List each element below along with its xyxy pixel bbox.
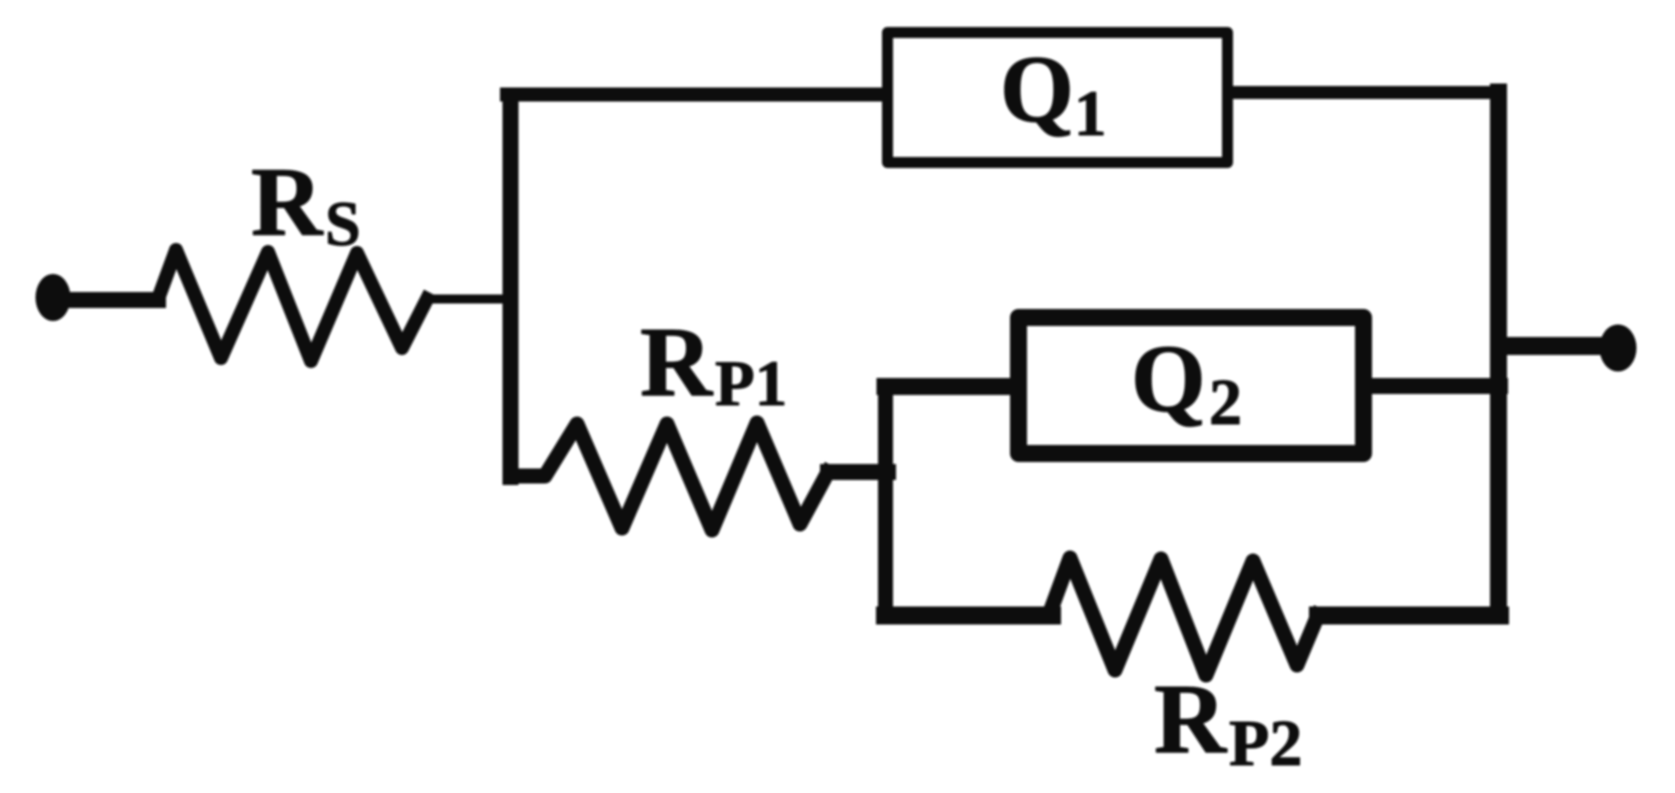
wire: node A to Q1: [507, 88, 886, 102]
svg-text:S: S: [325, 188, 361, 259]
terminal dot (left input): [36, 274, 71, 321]
svg-text:P2: P2: [1229, 707, 1302, 780]
wire: right rail vertical: [1490, 92, 1507, 616]
wire: left terminal to RS: [58, 292, 158, 308]
wire: Q1 to right rail: [1230, 86, 1500, 99]
wire: Q2 to right rail: [1367, 378, 1500, 394]
resistor RP1: [516, 423, 828, 530]
svg-text:P1: P1: [715, 348, 787, 420]
svg-text:Q: Q: [1000, 36, 1074, 142]
resistor RP2: [1049, 558, 1318, 675]
CPE Q2 box: [1019, 318, 1364, 454]
wire: RS to node A: [427, 295, 512, 304]
svg-text:R: R: [1154, 663, 1228, 774]
svg-text:R: R: [640, 306, 714, 417]
wire: RP2 to right rail: [1318, 607, 1500, 625]
svg-text:R: R: [251, 148, 324, 257]
wire: node B to RP2: [885, 607, 1052, 625]
wire: right rail to right terminal: [1499, 337, 1604, 355]
wire: node B vertical: [878, 387, 893, 615]
svg-text:1: 1: [1074, 78, 1107, 150]
resistor RS: [158, 250, 427, 361]
CPE Q1 box: [888, 33, 1228, 163]
wire: RP1 to node B: [828, 464, 888, 480]
svg-text:Q: Q: [1131, 325, 1206, 432]
wire: node B to Q2: [885, 378, 1015, 395]
svg-text:2: 2: [1209, 366, 1242, 439]
terminal dot (right output): [1600, 325, 1637, 372]
wire: node A vertical: [503, 97, 519, 477]
